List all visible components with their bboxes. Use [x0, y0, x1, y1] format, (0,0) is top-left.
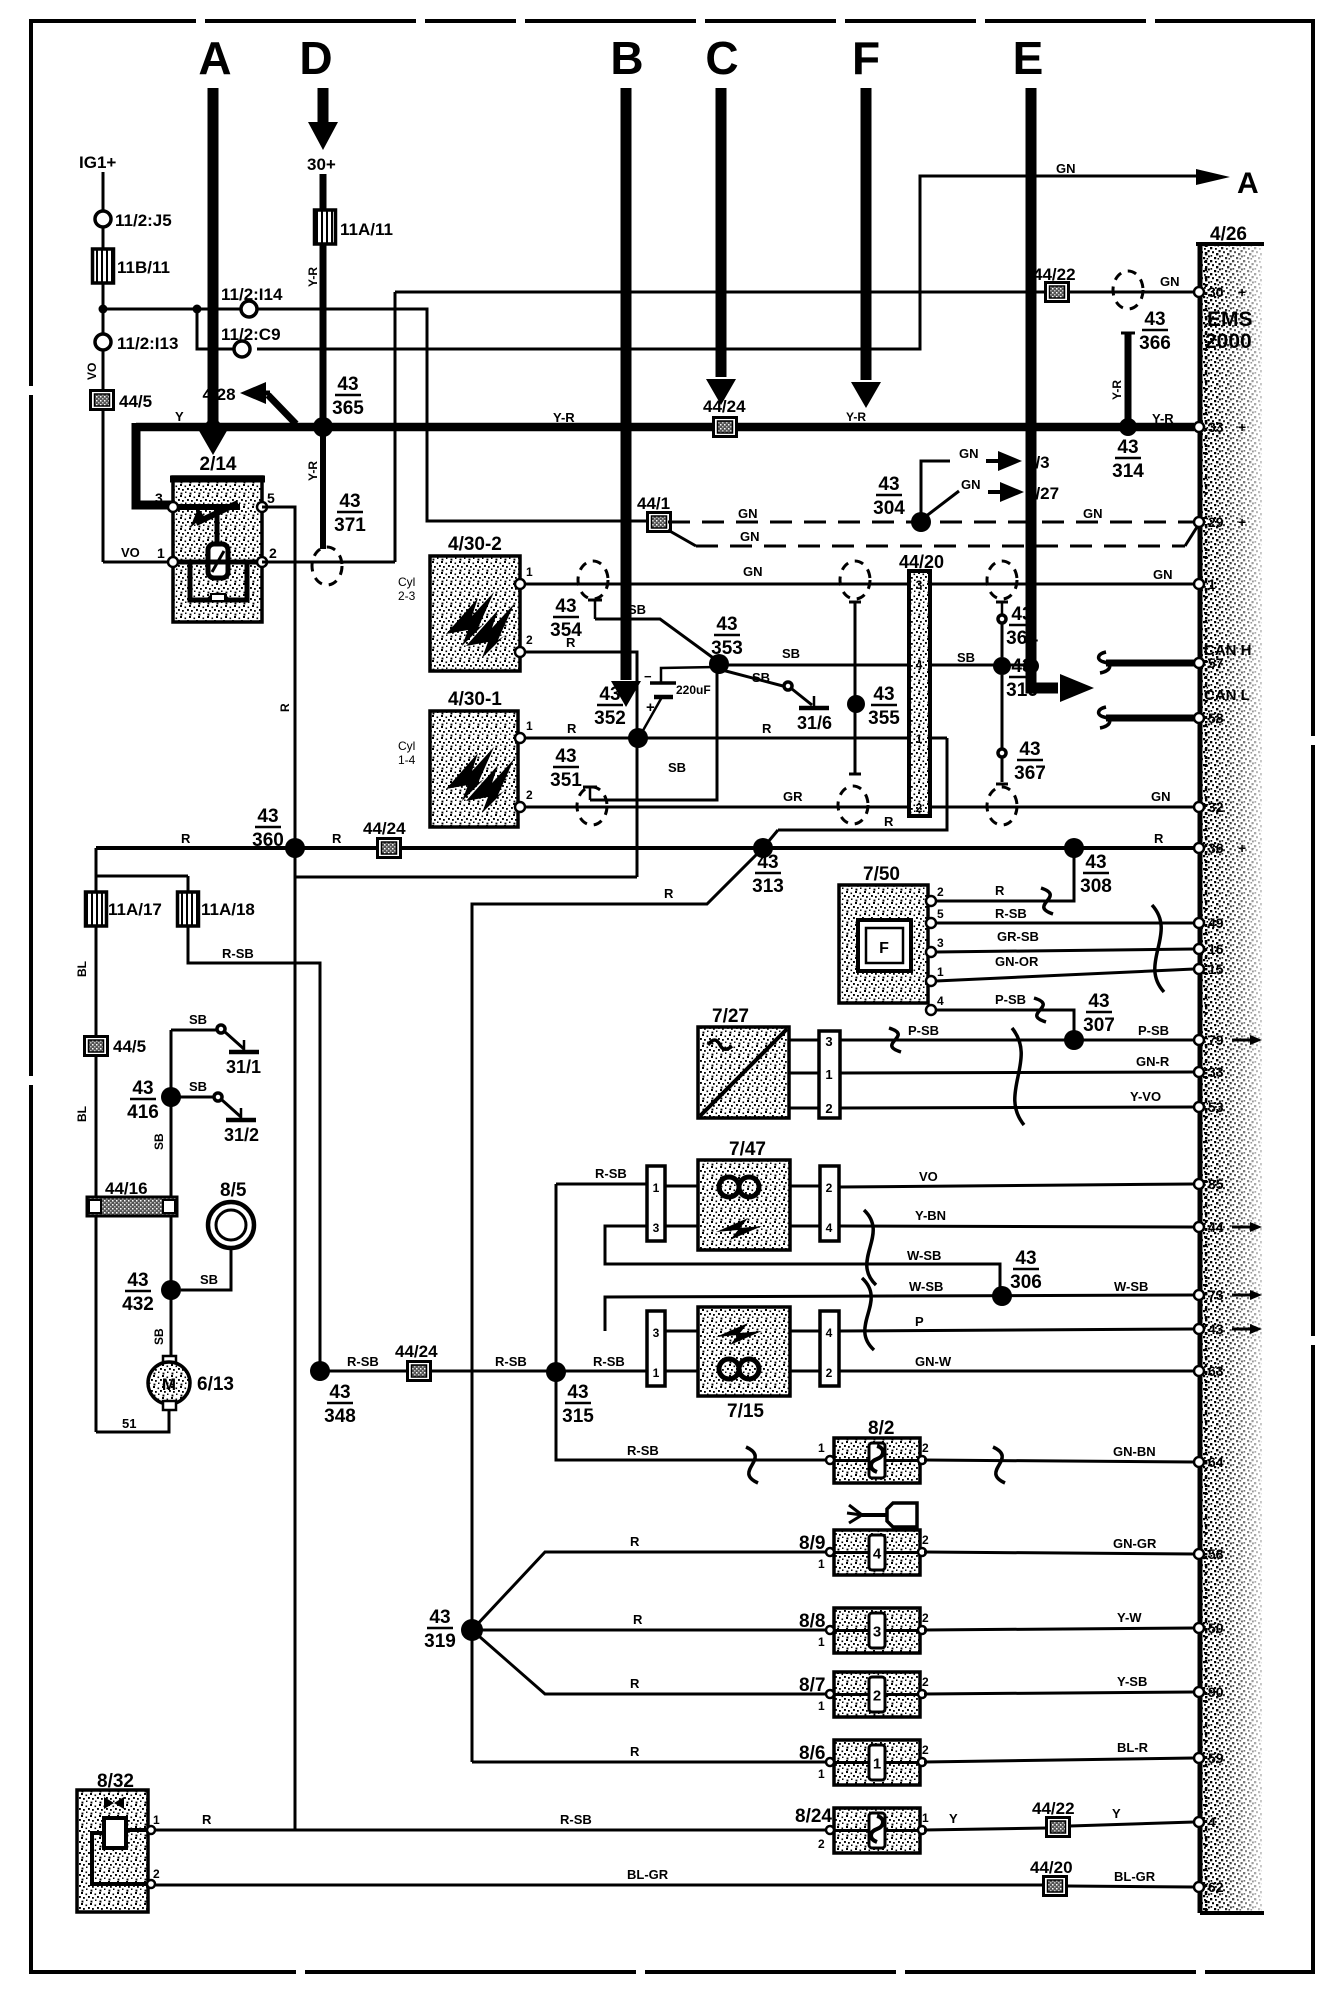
junction 43/314	[1119, 418, 1137, 436]
wire Y-VO to EMS	[840, 1107, 1194, 1108]
svg-text:366: 366	[1139, 333, 1171, 354]
svg-text:2: 2	[526, 633, 533, 647]
junction 43/319	[461, 1619, 483, 1641]
svg-text:3: 3	[653, 1326, 660, 1340]
svg-text:Y: Y	[1112, 1806, 1121, 1821]
wire GR coil1 pin2 to EMS pin 32	[524, 806, 1194, 809]
wire into 11A/18	[187, 876, 190, 894]
svg-text:R: R	[630, 1676, 640, 1691]
ECU pin 15	[1194, 964, 1204, 974]
wire stub 43/304 up	[921, 461, 950, 522]
svg-text:11B/11: 11B/11	[117, 258, 170, 277]
svg-text:43: 43	[1085, 852, 1106, 873]
svg-text:44/24: 44/24	[395, 1342, 438, 1361]
svg-text:43: 43	[1117, 437, 1138, 458]
svg-text:SB: SB	[957, 650, 975, 665]
wire 7/27 to strip pin2	[789, 1107, 819, 1110]
svg-text:33: 33	[1208, 419, 1224, 435]
cable mark 7/50 rows	[1152, 905, 1164, 992]
wire Y-SB to EMS pin 90	[924, 1692, 1194, 1694]
svg-text:Y-SB: Y-SB	[1117, 1674, 1147, 1689]
bus F vertical	[861, 88, 872, 380]
svg-text:90: 90	[1208, 1684, 1224, 1700]
svg-text:29: 29	[1208, 514, 1224, 530]
relay 2/14 coil	[208, 544, 228, 578]
ECU pin 1	[1194, 579, 1204, 589]
bus B vertical	[621, 88, 632, 680]
junction 43/315	[546, 1362, 566, 1382]
svg-text:307: 307	[1083, 1015, 1115, 1036]
wire strip to 7/15 pin1	[665, 1370, 698, 1373]
wire stub 43/304 diagonal	[925, 491, 959, 517]
wire to 11/2:I14	[103, 308, 241, 311]
wire shield to SB junction	[1001, 623, 1004, 657]
wire VO to EMS pin 85	[839, 1184, 1194, 1187]
wire R-SB row	[320, 1370, 647, 1373]
component 8/6	[834, 1740, 920, 1785]
capacitor 220uF	[661, 667, 716, 682]
svg-text:43: 43	[127, 1270, 148, 1291]
junction 43/307	[1064, 1030, 1084, 1050]
wire Y-R stub 43/366	[1125, 333, 1132, 427]
svg-text:4: 4	[916, 658, 923, 672]
svg-text:5: 5	[267, 490, 275, 506]
svg-text:44: 44	[1208, 1219, 1224, 1235]
arrowhead A into relay 2/14	[198, 429, 228, 455]
svg-text:62: 62	[1208, 1879, 1224, 1895]
svg-text:53: 53	[1208, 1099, 1224, 1115]
svg-text:VO: VO	[919, 1169, 938, 1184]
svg-text:1: 1	[157, 545, 165, 561]
svg-text:43: 43	[757, 852, 778, 873]
svg-text:2: 2	[153, 1867, 160, 1881]
svg-text:2: 2	[873, 1688, 881, 1705]
svg-text:59: 59	[1208, 1750, 1224, 1766]
svg-text:2: 2	[826, 1366, 833, 1380]
terminal 43/367	[996, 783, 1008, 786]
terminal 43/351	[583, 786, 597, 789]
terminal bar 43/366	[1121, 332, 1135, 335]
junction 43/304	[911, 512, 931, 532]
wire shield 43/355	[854, 602, 857, 774]
svg-text:319: 319	[424, 1631, 456, 1652]
svg-text:63: 63	[1208, 1363, 1224, 1379]
svg-text:4/30-1: 4/30-1	[448, 689, 502, 710]
wire R from relay pin5 long vertical	[262, 507, 295, 1830]
wire R row to EMS pin 36	[96, 846, 1194, 850]
relay 2/14 pin1-pin2 line	[173, 560, 262, 565]
junction 43/360	[285, 838, 305, 858]
wire R-SB vertical from 43/315	[555, 1184, 558, 1372]
svg-text:Y: Y	[949, 1811, 958, 1826]
svg-text:43: 43	[1088, 991, 1109, 1012]
ECU pin 50	[1194, 1623, 1204, 1633]
wire GN-GR to EMS pin 58	[924, 1552, 1194, 1554]
svg-text:43: 43	[257, 806, 278, 827]
svg-text:1: 1	[526, 565, 533, 579]
junction 43/352	[628, 728, 648, 748]
junction 43/308	[1064, 838, 1084, 858]
svg-text:5: 5	[937, 907, 944, 921]
junction 43/365	[313, 417, 333, 437]
svg-text:2: 2	[922, 1611, 929, 1625]
svg-text:33: 33	[1208, 1064, 1224, 1080]
wire 7/15 to strip pin2	[790, 1370, 820, 1373]
wire strip to 7/47 left pin1	[665, 1185, 698, 1188]
svg-text:BL: BL	[75, 961, 89, 977]
wire SB to ground 31/6	[722, 670, 783, 686]
svg-text:SB: SB	[752, 670, 770, 685]
connector 44/1	[648, 513, 671, 532]
connector at 31/6	[784, 682, 792, 690]
wire strip to 7/47 left pin3	[665, 1225, 698, 1228]
cable mark 8/2 left	[746, 1447, 758, 1483]
wire GN from C9 up to off-page A	[257, 176, 1196, 349]
connector 44/24 lower	[408, 1362, 431, 1381]
svg-text:SB: SB	[189, 1079, 207, 1094]
wire BL-R to EMS pin 59	[924, 1758, 1194, 1762]
svg-text:64: 64	[1208, 1454, 1224, 1470]
cable mark Y-BN W-SB	[864, 1210, 876, 1285]
svg-text:3: 3	[825, 1034, 832, 1049]
svg-text:304: 304	[873, 498, 905, 519]
component 8/32 box	[77, 1790, 148, 1912]
svg-text:43: 43	[567, 1382, 588, 1403]
svg-text:8/32: 8/32	[97, 1771, 134, 1792]
svg-text:R: R	[181, 831, 191, 846]
svg-text:316: 316	[1006, 680, 1038, 701]
svg-text:1: 1	[818, 1635, 825, 1649]
svg-text:367: 367	[1014, 763, 1046, 784]
cable mark P-SB row	[889, 1028, 901, 1052]
fuse 11A/18	[178, 892, 199, 926]
wire R-SB to 7/47 pin1	[556, 1183, 647, 1186]
wire R to 8/8	[472, 1629, 828, 1632]
svg-text:R: R	[762, 721, 772, 736]
svg-text:1-4: 1-4	[398, 753, 416, 767]
ECU pin 44	[1194, 1222, 1204, 1232]
svg-text:2-3: 2-3	[398, 589, 416, 603]
svg-text:BL-GR: BL-GR	[1114, 1869, 1156, 1884]
svg-text:8/2: 8/2	[868, 1418, 894, 1439]
ECU pin 79	[1194, 1035, 1204, 1045]
svg-text:Y-R: Y-R	[1152, 411, 1174, 426]
arrow to A top right	[1196, 169, 1230, 185]
junction 43/416	[161, 1087, 181, 1107]
svg-text:GN: GN	[1160, 274, 1180, 289]
wire SB to 31/1 contact	[171, 1029, 216, 1032]
svg-text:220uF: 220uF	[676, 683, 711, 697]
cable mark 8/2 right	[993, 1447, 1005, 1483]
svg-text:43: 43	[329, 1382, 350, 1403]
component 8/9	[834, 1530, 920, 1575]
connector loop GN row mid	[840, 561, 870, 599]
svg-text:GN-R: GN-R	[1136, 1054, 1170, 1069]
wire R to 8/7	[472, 1630, 828, 1694]
wire R 7/50 pin2 to 43/308	[936, 852, 1074, 901]
svg-text:M: M	[162, 1375, 176, 1394]
connector 11/2:C9	[234, 341, 250, 357]
connector loop GR row left	[577, 787, 607, 825]
svg-text:GN: GN	[1056, 161, 1076, 176]
ECU pin 64	[1194, 1457, 1204, 1467]
component 8/2	[834, 1438, 920, 1483]
arrowhead E to CAN	[1060, 674, 1094, 702]
wire GN-R to EMS	[840, 1072, 1194, 1073]
svg-text:416: 416	[127, 1102, 159, 1123]
ignition coil 4/30-2 box	[430, 556, 520, 671]
svg-text:43: 43	[555, 746, 576, 767]
svg-text:4/26: 4/26	[1210, 224, 1247, 245]
svg-text:C: C	[705, 32, 738, 84]
svg-text:364: 364	[1006, 628, 1038, 649]
injector icon 7/15 top	[716, 1323, 762, 1345]
wire branch to fuse 11A/18	[96, 875, 188, 878]
svg-text:44/24: 44/24	[363, 819, 406, 838]
svg-text:16: 16	[1208, 941, 1224, 957]
svg-text:43: 43	[1019, 739, 1040, 760]
wire R-SB to 8/2	[556, 1372, 828, 1460]
svg-text:SB: SB	[200, 1272, 218, 1287]
ECU pin 30	[1194, 287, 1204, 297]
svg-text:44/22: 44/22	[1033, 265, 1076, 284]
svg-text:4: 4	[937, 994, 944, 1008]
svg-text:314: 314	[1112, 461, 1144, 482]
wire branch down to 11/2:C9	[197, 309, 234, 349]
junction 43/313	[753, 838, 773, 858]
svg-text:GN: GN	[959, 446, 979, 461]
svg-text:15: 15	[1208, 961, 1224, 977]
svg-text:1: 1	[818, 1699, 825, 1713]
wire J5 to fuse 11B/11	[102, 227, 105, 250]
wire Y-R bus to relay pin 3	[136, 423, 173, 505]
svg-text:44/20: 44/20	[899, 552, 944, 572]
ECU pin 16	[1194, 944, 1204, 954]
svg-text:VO: VO	[85, 363, 99, 380]
svg-text:R-SB: R-SB	[222, 946, 254, 961]
wire R to 43/319 distribution	[472, 848, 763, 1762]
ECU pin 58b	[1194, 1549, 1204, 1559]
svg-text:Y-R: Y-R	[846, 410, 866, 424]
wire BL to 44/16	[95, 1055, 98, 1197]
svg-text:Y-R: Y-R	[553, 410, 575, 425]
arrowhead B	[611, 681, 641, 707]
bus E vertical	[1031, 88, 1058, 688]
svg-text:F: F	[879, 940, 889, 957]
wire Y to EMS pin 4	[1070, 1822, 1194, 1826]
svg-text:365: 365	[332, 398, 364, 419]
connector loop GN row left	[578, 561, 608, 599]
svg-text:30+: 30+	[307, 155, 336, 174]
svg-text:−: −	[644, 669, 652, 684]
wire BL below 44/16	[95, 1215, 98, 1432]
ignition coil 4/30-1 box	[430, 711, 518, 827]
svg-text:44/5: 44/5	[113, 1037, 146, 1056]
connector strip 7/47 right	[820, 1166, 839, 1241]
wire to 31/6 bar	[792, 689, 812, 705]
wire shield below SB junction	[1001, 675, 1004, 748]
wire VO 44/5 down to relay pin 1	[102, 409, 105, 562]
svg-text:6/13: 6/13	[197, 1374, 234, 1395]
svg-text:W-SB: W-SB	[909, 1279, 943, 1294]
wire P-SB 7/50 pin4	[936, 1010, 1074, 1036]
motor 6/13	[163, 1356, 176, 1365]
svg-text:11A/18: 11A/18	[201, 900, 255, 919]
ECU pin 33b	[1194, 1067, 1204, 1077]
wire R to 8/9	[472, 1552, 828, 1630]
wire R link to long vertical	[295, 876, 637, 879]
wire strip to 7/15 pin3	[665, 1330, 698, 1333]
svg-text:P-SB: P-SB	[995, 992, 1026, 1007]
svg-text:3: 3	[155, 490, 163, 506]
connector loop 43/371	[312, 547, 342, 585]
svg-text:Cyl: Cyl	[398, 575, 415, 589]
svg-text:Cyl: Cyl	[398, 739, 415, 753]
svg-text:P-SB: P-SB	[1138, 1023, 1169, 1038]
bus C vertical	[716, 88, 727, 377]
connector 44/24 on Y-R bus	[714, 418, 737, 437]
svg-text:Y-BN: Y-BN	[915, 1208, 946, 1223]
wire Y-BN to EMS pin 44	[839, 1226, 1194, 1227]
svg-text:2: 2	[269, 545, 277, 561]
svg-text:57: 57	[1208, 655, 1224, 671]
relay 2/14 switch arm	[196, 503, 238, 523]
svg-text:2: 2	[922, 1675, 929, 1689]
svg-text:VO: VO	[121, 545, 140, 560]
wire SB horn to 43/432	[181, 1248, 231, 1290]
terminal 43/354	[588, 599, 602, 602]
svg-text:4/27: 4/27	[1026, 484, 1059, 503]
svg-text:R: R	[630, 1534, 640, 1549]
svg-text:2: 2	[937, 885, 944, 899]
svg-text:43: 43	[337, 374, 358, 395]
wire R diagonal to 43/313	[763, 830, 778, 848]
svg-text:371: 371	[334, 515, 366, 536]
svg-text:3: 3	[873, 1624, 881, 1641]
svg-text:1: 1	[653, 1181, 660, 1195]
component 8/8	[834, 1608, 920, 1653]
wire 44/1 diagonal to lower dashed	[668, 530, 696, 546]
svg-text:31/1: 31/1	[226, 1057, 261, 1077]
ground 31/2	[240, 1108, 243, 1120]
component 7/50 box	[839, 885, 928, 1003]
wire from relay pin2 to x395	[262, 561, 395, 564]
svg-text:GN: GN	[1151, 789, 1171, 804]
ECU pin 33	[1194, 422, 1204, 432]
svg-text:GN: GN	[1153, 567, 1173, 582]
svg-text:44/16: 44/16	[105, 1179, 148, 1198]
wire 7/27 to strip pin1	[789, 1072, 819, 1075]
svg-text:43: 43	[716, 614, 737, 635]
svg-text:BL-R: BL-R	[1117, 1740, 1149, 1755]
svg-text:GN: GN	[738, 506, 758, 521]
terminal 43/355 bottom	[849, 773, 861, 776]
svg-text:P-SB: P-SB	[908, 1023, 939, 1038]
wire SB row to E bus	[719, 664, 1029, 667]
svg-text:2: 2	[826, 1181, 833, 1195]
svg-text:354: 354	[550, 620, 582, 641]
twisted pair mark CAN L	[1099, 707, 1110, 728]
svg-text:R: R	[278, 703, 292, 712]
wire D to fuse 11A/11	[320, 174, 327, 210]
wire P-SB row to EMS pin 79	[840, 1039, 1194, 1042]
relay 2/14 lower loop	[190, 564, 247, 600]
svg-text:8/6: 8/6	[799, 1743, 825, 1764]
svg-text:R-SB: R-SB	[593, 1354, 625, 1369]
svg-text:2: 2	[818, 1837, 825, 1851]
wire CAN H	[1106, 660, 1194, 667]
arrowhead D at top	[308, 122, 338, 150]
svg-text:43: 43	[429, 1607, 450, 1628]
svg-text:R-SB: R-SB	[627, 1443, 659, 1458]
svg-text:R: R	[664, 886, 674, 901]
junction 43/355	[847, 695, 865, 713]
svg-text:51: 51	[122, 1416, 136, 1431]
bus A tail	[208, 424, 219, 432]
junction 43/432	[161, 1280, 181, 1300]
bus A vertical	[208, 88, 219, 424]
wire R-SB 7/50 pin5	[936, 922, 1194, 925]
svg-text:R-SB: R-SB	[995, 906, 1027, 921]
svg-text:4: 4	[826, 1221, 833, 1235]
connector 44/20 lower	[1044, 1877, 1067, 1896]
wire W-SB row to EMS pin 73	[605, 1295, 1194, 1331]
svg-text:Y: Y	[175, 409, 184, 424]
svg-text:R-SB: R-SB	[495, 1354, 527, 1369]
svg-text:30: 30	[1208, 284, 1224, 300]
svg-text:GN: GN	[743, 564, 763, 579]
svg-text:1: 1	[916, 732, 923, 746]
junction 43/348	[310, 1361, 330, 1381]
svg-text:R-SB: R-SB	[347, 1354, 379, 1369]
connector 43/367	[998, 749, 1006, 757]
wire BL-GR from 8/32 pin2	[155, 1884, 1044, 1887]
svg-text:348: 348	[324, 1406, 356, 1427]
svg-text:44/1: 44/1	[637, 494, 670, 513]
wire SB tap 351 to 43/353	[590, 667, 717, 800]
svg-text:43: 43	[132, 1078, 153, 1099]
arrow to 4/28	[248, 391, 270, 396]
svg-text:+: +	[1238, 284, 1246, 300]
svg-text:SB: SB	[668, 760, 686, 775]
svg-text:R: R	[1154, 831, 1164, 846]
cable mark W-SB P	[862, 1278, 874, 1350]
svg-text:R: R	[884, 814, 894, 829]
ECU pin 73	[1194, 1290, 1204, 1300]
svg-text:Y-VO: Y-VO	[1130, 1089, 1161, 1104]
svg-text:360: 360	[252, 830, 284, 851]
svg-text:44/22: 44/22	[1032, 1799, 1075, 1818]
svg-text:W-SB: W-SB	[1114, 1279, 1148, 1294]
wire R to 8/6	[472, 1761, 828, 1764]
fuse 11A/17	[86, 892, 107, 926]
wire R from 8/32 to 8/24	[155, 1829, 828, 1832]
svg-text:R-SB: R-SB	[560, 1812, 592, 1827]
component 7/27 box	[698, 1027, 789, 1118]
svg-text:2: 2	[922, 1743, 929, 1757]
svg-text:GN: GN	[1083, 506, 1103, 521]
svg-text:432: 432	[122, 1294, 154, 1315]
svg-text:73: 73	[1208, 1287, 1224, 1303]
svg-text:32: 32	[1208, 799, 1224, 815]
junction SB at E bus	[1023, 658, 1039, 674]
wire CAN L	[1106, 715, 1194, 722]
ECU 4/26 EMS 2000 box	[1200, 244, 1262, 1913]
ground 31/1	[243, 1040, 246, 1052]
connector 31/2 contact	[214, 1093, 222, 1101]
wire Y-W to EMS pin 50	[924, 1628, 1194, 1630]
svg-text:SB: SB	[189, 1012, 207, 1027]
